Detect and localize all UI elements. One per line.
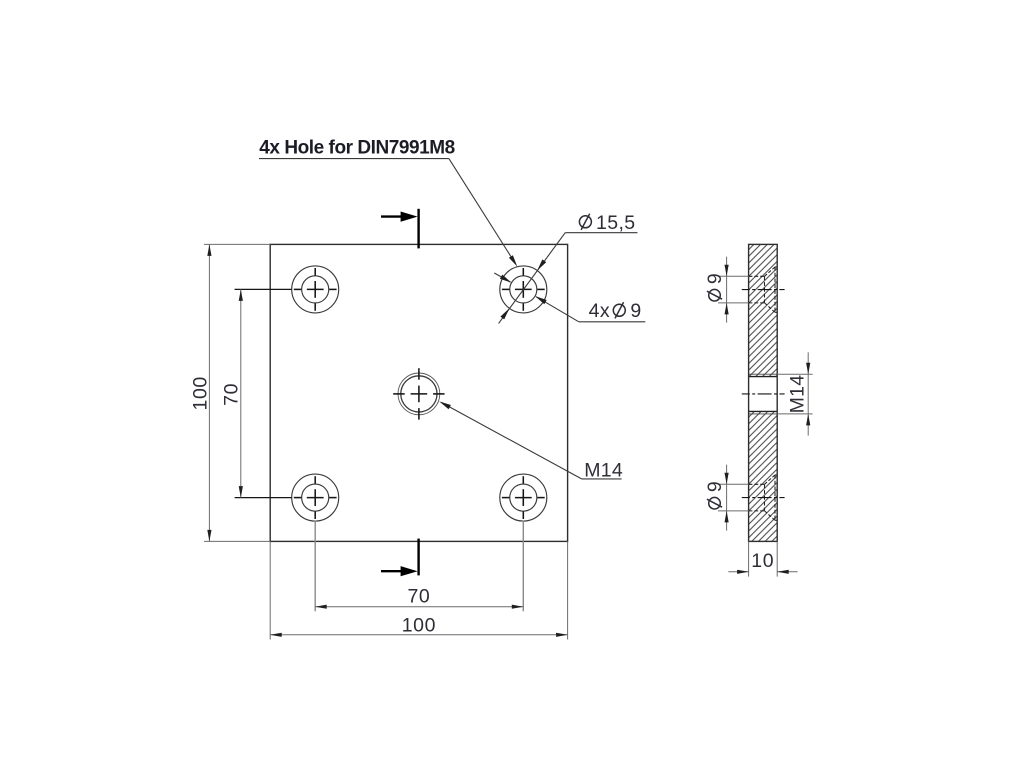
hole TL centerlines — [294, 268, 337, 311]
side view M14 threaded hole band — [749, 374, 778, 414]
side view dimension M14 — [777, 352, 812, 435]
extension line below hole BL — [314, 521, 316, 612]
dimension 100 vertical left — [189, 244, 270, 541]
hole BR centerlines — [502, 476, 545, 519]
hole TL circles — [292, 266, 339, 313]
extension line left of hole TL — [235, 288, 292, 290]
label 4x diameter 9 with leader — [494, 273, 645, 322]
dimension 100 horizontal bottom — [270, 541, 567, 639]
hole BR circles — [500, 474, 547, 521]
side view dimension 10 — [728, 541, 797, 576]
section cutting plane mark top — [381, 209, 419, 249]
svg-text:9: 9 — [704, 273, 726, 284]
dimension 70 horizontal bottom — [315, 586, 523, 609]
side view hidden hole top — [749, 267, 778, 312]
section cutting plane mark bottom — [381, 539, 419, 577]
extension line below hole BR — [522, 521, 524, 612]
center hole M14 circles — [398, 373, 440, 415]
svg-text:100: 100 — [189, 376, 211, 410]
label diameter 15,5 with leader — [499, 212, 638, 323]
svg-text:9: 9 — [630, 300, 641, 322]
side view hatched section body — [749, 244, 778, 541]
side view dimension phi9 bottom — [704, 465, 749, 531]
svg-text:M14: M14 — [584, 459, 623, 481]
label M14 with leader — [439, 401, 623, 481]
svg-text:15,5: 15,5 — [596, 212, 636, 234]
side view centerline top — [742, 289, 785, 291]
label 4x Hole for DIN7991M8 with leader — [259, 138, 517, 267]
svg-text:9: 9 — [704, 481, 726, 492]
side view centerline middle — [742, 393, 785, 395]
svg-text:100: 100 — [402, 615, 436, 637]
hole BL circles — [292, 474, 339, 521]
svg-text:M14: M14 — [786, 375, 808, 414]
side view dimension phi9 top — [704, 257, 749, 323]
side view outline — [749, 244, 778, 541]
svg-text:70: 70 — [407, 586, 430, 608]
side view hidden hole bottom — [749, 475, 778, 520]
hole TR centerlines — [502, 268, 545, 311]
plate outline front view — [270, 244, 567, 541]
svg-text:4x: 4x — [589, 300, 610, 322]
side view centerline bottom — [742, 497, 785, 499]
svg-text:70: 70 — [221, 383, 243, 406]
svg-text:10: 10 — [751, 550, 774, 572]
hole TR circles — [500, 266, 547, 313]
center hole centerlines — [393, 368, 444, 419]
extension line left of hole BL — [235, 497, 292, 499]
dimension 70 vertical left — [221, 289, 243, 497]
svg-text:4x Hole for DIN7991M8: 4x Hole for DIN7991M8 — [259, 138, 454, 159]
hole BL centerlines — [294, 476, 337, 519]
